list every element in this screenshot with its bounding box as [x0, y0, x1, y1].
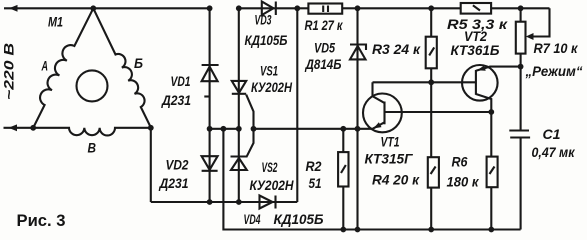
svg-text:0,47 мк: 0,47 мк [532, 144, 576, 160]
svg-text:М1: М1 [48, 14, 63, 30]
node: gate bus / VS1 gate [251, 126, 257, 132]
node: lower bus / VD2 [207, 199, 213, 205]
node: VT2 emitter / C1 column [518, 64, 524, 70]
node: cathode bus / VD1-VD2 [207, 126, 213, 132]
svg-text:КД105Б: КД105Б [274, 211, 324, 227]
svg-text:Рис. 3: Рис. 3 [17, 211, 66, 230]
svg-text:Д231: Д231 [161, 92, 191, 108]
svg-text:Д814Б: Д814Б [305, 56, 342, 72]
wire: rail R1..R3 [358, 7, 432, 9]
wire: frame column from rail down to VD4 wire [296, 8, 298, 202]
capacitor C1 0.47mk [509, 131, 530, 230]
node: bus / VD5 column [355, 227, 361, 233]
svg-text:VD4: VD4 [244, 211, 261, 227]
svg-text:R2: R2 [306, 158, 322, 174]
node: lower bus / VS2 [236, 199, 242, 205]
svg-text:VD5: VD5 [314, 40, 335, 56]
svg-text:КУ202Н: КУ202Н [251, 79, 293, 95]
wire: rail R3..R5 [431, 7, 461, 9]
resistor R4 20k [428, 157, 439, 229]
diode VD1 [202, 8, 219, 129]
svg-text:А: А [41, 58, 48, 74]
svg-text:R7 10 к: R7 10 к [534, 40, 579, 56]
node: cathode bus / down column [221, 126, 227, 132]
thyristor VS1 [232, 8, 254, 129]
svg-text:180 к: 180 к [447, 174, 480, 190]
node: rail/VD1 [207, 5, 213, 11]
wire: top AC lead [4, 7, 93, 9]
node: rail/VS1 [236, 5, 242, 11]
svg-text:R4 20 к: R4 20 к [372, 172, 420, 188]
node: rail/R7 [518, 5, 524, 11]
wire: lower motor bus y=202 [151, 201, 260, 203]
node: bus / R2 [340, 227, 346, 233]
wire: rail dot to R1 [297, 7, 308, 9]
wire: motor right vertex down [150, 128, 152, 202]
svg-text:R1 27 к: R1 27 к [305, 17, 344, 33]
wire: small stub on VD1 column [204, 95, 209, 97]
node: bottom-left vertex junction [30, 125, 36, 131]
wire: top rail vertex to VD1 column [93, 7, 209, 9]
svg-text:В: В [88, 140, 97, 156]
svg-text:VS1: VS1 [260, 63, 278, 79]
wire: VT1 collector to VT2 base line [373, 81, 432, 83]
motor M1 rotor circle [77, 70, 108, 101]
node: bus / R6 [488, 227, 494, 233]
transistor VT1 KT315G (npn) [363, 82, 491, 132]
node: cathode bus / VS1-VS2 [236, 126, 242, 132]
motor M1 winding B (right side of triangle) [93, 8, 151, 128]
resistor R3 24k [426, 8, 437, 157]
resistor R6 180k [487, 112, 498, 230]
svg-text:Б: Б [134, 55, 143, 71]
node: motor bottom-right vertex [148, 125, 154, 131]
node: bus / R4 [428, 227, 434, 233]
node: gate bus / R2 [340, 126, 346, 132]
svg-text:КД105Б: КД105Б [245, 32, 288, 48]
svg-text:КТ361Б: КТ361Б [451, 42, 500, 58]
diode VD3 on top rail [239, 2, 297, 16]
resistor R1 27k [308, 4, 357, 14]
motor M1 winding A (left side of triangle) [33, 8, 93, 128]
resistor R5 3.3k [461, 3, 521, 14]
motor M1 winding V (bottom of triangle) [33, 128, 151, 136]
node: VT2 collector / VT1 base / R6 [488, 109, 494, 115]
transistor VT2 KT361B (pnp) [431, 65, 520, 112]
svg-text:51: 51 [309, 175, 322, 191]
svg-text:VD3: VD3 [255, 12, 272, 28]
svg-text:R6: R6 [452, 154, 468, 170]
svg-text:Д231: Д231 [159, 175, 189, 191]
node: rail/R3 [428, 5, 434, 11]
wire: cathode bus [210, 128, 239, 130]
svg-text:VT1: VT1 [381, 134, 400, 150]
potentiometer R7 10k [516, 8, 550, 130]
svg-text:VD2: VD2 [166, 157, 189, 173]
wire: bottom AC lead [4, 127, 34, 129]
svg-text:„Режим“: „Режим“ [525, 63, 583, 79]
node: rail/VD5 column [355, 5, 361, 11]
node: R3-R4 / base line [428, 79, 434, 85]
arrow: top AC terminal [9, 5, 18, 12]
node: gate bus / VD5 column [355, 126, 361, 132]
diode VD2 [202, 129, 218, 202]
svg-text:КУ202Н: КУ202Н [250, 177, 295, 193]
svg-text:VD1: VD1 [171, 73, 191, 89]
svg-text:R3 24 к: R3 24 к [372, 41, 421, 57]
zener diode VD5 [350, 8, 366, 229]
diode VD4 [239, 196, 297, 209]
svg-text:С1: С1 [543, 126, 561, 142]
svg-text:VS2: VS2 [262, 159, 278, 175]
node: motor top vertex [90, 5, 96, 11]
node: rail / right frame column [294, 5, 300, 11]
wire: cathode bus to bottom bus column [223, 129, 520, 230]
wire: gate bus [254, 128, 374, 130]
svg-text:КТ315Г: КТ315Г [365, 151, 414, 167]
resistor R2 51 [338, 129, 348, 230]
arrow: bottom AC terminal [9, 124, 18, 131]
thyristor VS2 [231, 129, 254, 202]
svg-text:~220 В: ~220 В [1, 43, 17, 100]
